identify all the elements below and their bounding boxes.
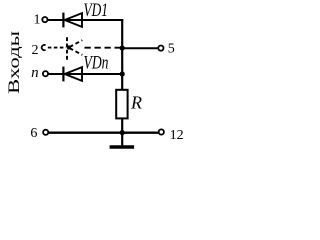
- svg-text:2: 2: [32, 43, 39, 58]
- wire bottom rail: [49, 132, 158, 134]
- wire vertical bus: [121, 19, 123, 90]
- wire dashed input2 right segment to bus: [85, 47, 121, 49]
- node 12 (terminal 12): [159, 129, 164, 134]
- junction dot at dashed diode apex: [67, 45, 71, 49]
- junction bus/row2: [120, 45, 125, 50]
- junction bus/row n: [120, 71, 125, 76]
- wire dashed input2 left segment: [48, 47, 66, 49]
- diode VDk (implied, dashed): [67, 37, 82, 62]
- diode VD1: [63, 13, 82, 28]
- svg-text:6: 6: [30, 126, 37, 141]
- svg-text:Входы: Входы: [6, 31, 23, 94]
- svg-text:R: R: [130, 92, 142, 112]
- svg-text:1: 1: [34, 13, 41, 28]
- wire input1 to bus corner: [48, 19, 123, 21]
- svg-text:VDn: VDn: [84, 53, 109, 73]
- svg-text:n: n: [31, 65, 39, 81]
- resistor R: [116, 90, 127, 119]
- svg-text:12: 12: [170, 128, 184, 143]
- ground: [121, 133, 123, 146]
- junction rail/bus: [120, 130, 125, 135]
- diode VDn: [63, 67, 82, 82]
- wire input n to bus: [48, 73, 122, 75]
- svg-text:VD1: VD1: [84, 1, 109, 21]
- node 5 (output terminal): [158, 46, 163, 51]
- svg-text:5: 5: [168, 41, 175, 56]
- wire resistor to rail: [121, 118, 123, 133]
- wire output to terminal 5: [122, 47, 158, 49]
